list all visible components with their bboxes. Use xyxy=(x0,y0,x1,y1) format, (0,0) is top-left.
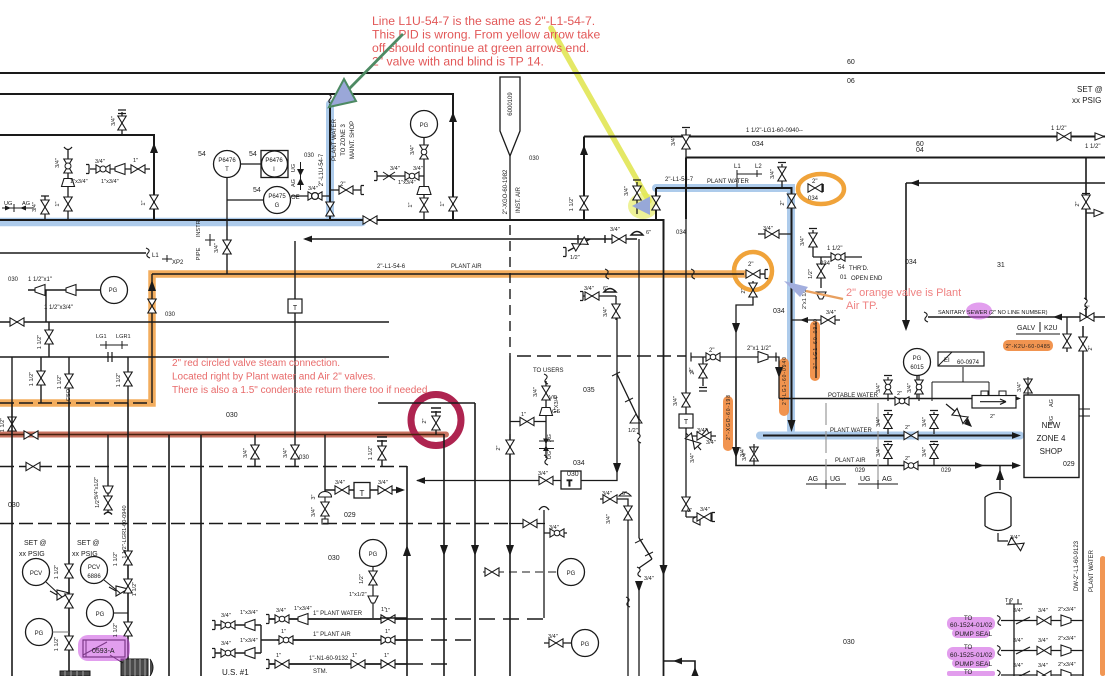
backflow preventer set xyxy=(884,376,919,402)
inclined blowoff x686 xyxy=(686,433,701,450)
LG1 LGR1 ticks xyxy=(100,341,128,349)
svg-text:030: 030 xyxy=(8,277,19,283)
highlight: plant air line (orange) xyxy=(0,274,744,403)
wire condensate header y241 with west arrow xyxy=(305,235,637,243)
dashed line under orange y403 xyxy=(0,402,152,404)
svg-text:PG: PG xyxy=(35,631,44,637)
svg-text:034: 034 xyxy=(752,141,764,148)
svg-text:6886: 6886 xyxy=(87,574,101,580)
svg-text:030: 030 xyxy=(165,312,176,318)
purple: sewer word xyxy=(966,303,992,320)
svg-text:UG: UG xyxy=(860,476,871,483)
svg-text:PUMP SEAL: PUMP SEAL xyxy=(955,661,992,668)
svg-text:UG: UG xyxy=(4,201,12,207)
svg-text:T ?: T ? xyxy=(1005,598,1013,604)
valve 1" on x154 drop xyxy=(150,195,158,209)
left edge row valves 1" xyxy=(380,617,407,619)
instrument PCV 6886 xyxy=(81,557,108,584)
svg-text:2": 2" xyxy=(780,200,786,205)
trap set y490 xyxy=(325,489,398,491)
svg-text:60-1524-01/02: 60-1524-01/02 xyxy=(950,622,993,629)
svg-text:3/4": 3/4" xyxy=(770,169,776,179)
svg-text:04: 04 xyxy=(916,147,924,154)
svg-text:POTABLE WATER: POTABLE WATER xyxy=(828,393,879,399)
svg-text:K2U: K2U xyxy=(1044,325,1058,332)
svg-text:029: 029 xyxy=(941,468,952,474)
instrument P6476 I (shared display) xyxy=(261,151,288,178)
svg-text:PLANT AIR: PLANT AIR xyxy=(451,264,482,270)
svg-text:54: 54 xyxy=(249,151,257,158)
inst air inlet funnel 6000109 xyxy=(500,77,520,156)
svg-text:1/2": 1/2" xyxy=(628,428,638,434)
svg-text:60-1525-01/02: 60-1525-01/02 xyxy=(950,652,993,659)
riser x128 long xyxy=(127,403,129,676)
sanitary sewer line xyxy=(928,316,1105,318)
svg-text:AG: AG xyxy=(291,179,297,187)
svg-text:There is also a 1.5" condensat: There is also a 1.5" condensate return t… xyxy=(172,385,427,396)
svg-text:1 1/2": 1 1/2" xyxy=(113,552,119,566)
svg-text:2": 2" xyxy=(812,179,817,185)
svg-text:3/4": 3/4" xyxy=(1038,608,1048,614)
pump B motor hatched xyxy=(121,659,153,676)
svg-text:3/4": 3/4" xyxy=(1038,663,1048,669)
valve 1 1/2" x584 xyxy=(580,196,588,210)
reducer pair on y291 stub xyxy=(28,290,100,322)
svg-text:3/4": 3/4" xyxy=(700,507,710,513)
highlight: 2"-L1U-54-7 branch (blue) xyxy=(326,104,334,218)
svg-text:2"-L1U-54-7: 2"-L1U-54-7 xyxy=(319,153,325,186)
wire top line 1 xyxy=(0,72,1105,74)
svg-text:2": 2" xyxy=(496,445,502,450)
svg-text:2": 2" xyxy=(741,288,747,293)
svg-text:SET @: SET @ xyxy=(1077,85,1103,94)
svg-text:3/4": 3/4" xyxy=(413,166,423,172)
drain branch x616 xyxy=(583,296,639,420)
svg-text:PCV: PCV xyxy=(30,571,42,577)
svg-text:3/4": 3/4" xyxy=(697,428,707,434)
svg-text:PLANT WATER: PLANT WATER xyxy=(707,179,750,185)
flange on y357 xyxy=(108,352,112,362)
svg-text:PG: PG xyxy=(109,288,118,294)
svg-text:2": 2" xyxy=(1075,201,1081,206)
ug/ag tick x546 xyxy=(539,441,554,449)
svg-text:PLANT WATER: PLANT WATER xyxy=(1089,549,1095,592)
flow arrow up x407 xyxy=(403,545,411,556)
sewer drop valve x1067 xyxy=(1066,317,1068,352)
row tie-in valves 1" xyxy=(379,617,381,619)
valve on main x370 xyxy=(363,216,377,224)
svg-text:3/4": 3/4" xyxy=(335,480,345,486)
valve 2" on zone4 drop xyxy=(787,194,795,208)
svg-text:3/4": 3/4" xyxy=(671,136,677,146)
node flow arrow up x453 xyxy=(449,112,457,122)
svg-text:AG: AG xyxy=(22,201,30,207)
svg-text:SET @: SET @ xyxy=(24,540,47,547)
hose stub y227 xyxy=(758,233,791,235)
pump A motor xyxy=(60,671,90,676)
valve 1" on x453 drop xyxy=(449,197,457,211)
highlight: yellow annotation stroke xyxy=(551,28,649,201)
instrument P6475 G xyxy=(264,187,291,214)
svg-text:3/4": 3/4" xyxy=(538,471,548,477)
wire L1U-54-7 branch vertical xyxy=(329,104,331,219)
svg-text:6": 6" xyxy=(622,491,627,497)
svg-text:6": 6" xyxy=(687,508,692,514)
svg-text:030: 030 xyxy=(226,412,238,419)
svg-text:1": 1" xyxy=(440,201,446,206)
riser x1086 k2u xyxy=(1085,158,1087,318)
svg-text:3/4": 3/4" xyxy=(742,451,748,461)
svg-text:3/4": 3/4" xyxy=(603,307,609,317)
valve+cap TP stub x637 xyxy=(633,180,641,214)
potable water line xyxy=(779,398,1019,400)
return header corner x906 xyxy=(906,183,1105,326)
valve 3/4" stub x45 xyxy=(41,196,49,219)
svg-text:Air TP.: Air TP. xyxy=(846,300,878,312)
svg-text:TO USERS: TO USERS xyxy=(533,368,564,374)
svg-text:1"x3/4": 1"x3/4" xyxy=(70,179,88,185)
svg-text:31: 31 xyxy=(997,262,1005,269)
wire top line 2 to corner xyxy=(0,94,453,219)
svg-text:1 1/2": 1 1/2" xyxy=(1085,144,1100,150)
root valve drop x227 to plant air xyxy=(226,220,228,274)
svg-text:xx PSIG: xx PSIG xyxy=(19,551,45,558)
seal row 3 partial xyxy=(1001,674,1083,676)
riser x407 xyxy=(406,466,408,676)
orange circle around plant water valve xyxy=(798,174,844,204)
instrument PG x585 w/ valve xyxy=(572,630,599,657)
valve 1 1/2" x69 lower xyxy=(65,636,73,650)
svg-text:54: 54 xyxy=(253,187,261,194)
highlight: plant water to new zone 4 shop (blue) xyxy=(656,188,1020,436)
svg-text:PG: PG xyxy=(913,356,922,362)
svg-text:3/4": 3/4" xyxy=(378,480,388,486)
US1 side taps rowA y625 rowB y653 xyxy=(215,625,277,653)
svg-text:0593-A: 0593-A xyxy=(92,648,115,655)
svg-text:1 1/2": 1 1/2" xyxy=(54,637,60,651)
orange bar label horizontal (2"-K2U) xyxy=(1003,340,1053,351)
svg-text:1/2": 1/2" xyxy=(359,574,365,584)
svg-text:3/4": 3/4" xyxy=(690,453,696,463)
wire G to root valve xyxy=(291,195,330,197)
svg-text:6": 6" xyxy=(646,230,651,236)
svg-text:030: 030 xyxy=(529,156,540,162)
svg-text:P6475: P6475 xyxy=(268,194,286,200)
svg-text:PLANT AIR: PLANT AIR xyxy=(835,458,866,464)
valve 2" drop x703 xyxy=(699,357,707,391)
svg-text:OPEN END: OPEN END xyxy=(851,276,883,282)
orange bar label 3 xyxy=(723,396,733,451)
riser x12 long xyxy=(11,403,13,676)
wire left header y135 xyxy=(0,135,154,219)
svg-text:3/4": 3/4" xyxy=(800,236,806,246)
svg-text:2"x3/4": 2"x3/4" xyxy=(1058,607,1076,613)
svg-text:Located right by Plant water a: Located right by Plant water and Air 2" … xyxy=(172,372,376,383)
svg-text:2": 2" xyxy=(1088,345,1094,350)
valve on zone4 branch root x656 xyxy=(652,196,660,210)
svg-text:2": 2" xyxy=(897,391,902,397)
dark red circle around steam valve xyxy=(411,395,461,446)
svg-text:3/4": 3/4" xyxy=(922,417,928,427)
instrument PG x571 w/ dashed lead xyxy=(558,559,585,586)
svg-text:LGR1: LGR1 xyxy=(116,334,131,340)
svg-text:3/4": 3/4" xyxy=(706,440,716,446)
lavender arrow to pink note xyxy=(806,291,843,299)
svg-text:3/4": 3/4" xyxy=(1013,608,1023,614)
svg-text:1": 1" xyxy=(384,653,389,659)
lower riser x544 w/ vac breaker xyxy=(539,507,549,619)
svg-text:1 1/2": 1 1/2" xyxy=(113,623,119,637)
svg-text:T: T xyxy=(225,167,229,173)
svg-text:1"-N1-60-9132: 1"-N1-60-9132 xyxy=(309,656,349,662)
gray boundary x826 xyxy=(825,403,827,487)
svg-text:2"-XGO-60-198: 2"-XGO-60-198 xyxy=(726,395,732,440)
svg-text:off should continue at green a: off should continue at green arrows end. xyxy=(372,41,589,55)
svg-text:3/4": 3/4" xyxy=(673,396,679,406)
instrument P6476 T xyxy=(214,151,241,178)
svg-text:3/4": 3/4" xyxy=(214,243,220,253)
flow arrow up on plant air riser xyxy=(148,280,156,291)
instrument PCV left xyxy=(23,559,50,586)
wire plant water branch to zone4 (under blue) xyxy=(656,188,1018,436)
svg-text:SANITARY SEWER (2" NO LINE NUM: SANITARY SEWER (2" NO LINE NUMBER) xyxy=(938,310,1048,316)
svg-text:3/4": 3/4" xyxy=(876,383,882,393)
breaks on plant air line xyxy=(605,269,609,279)
valve 2" steam TP (red circled) xyxy=(431,408,441,435)
svg-text:PG: PG xyxy=(369,552,378,558)
blowdown stub x792 y320 xyxy=(792,319,841,321)
svg-text:01: 01 xyxy=(840,275,847,281)
stub 2" blind east of branch xyxy=(330,189,361,191)
branch 2" y357 to zone4 riser xyxy=(691,357,779,399)
plant air line to shop xyxy=(736,357,1019,466)
svg-text:3/4": 3/4" xyxy=(826,310,836,316)
valve on plant air riser xyxy=(148,299,156,313)
svg-text:3/4": 3/4" xyxy=(624,186,630,196)
valve drop x295 lower xyxy=(294,435,296,466)
header row 2 plant air y640 xyxy=(277,639,407,641)
instrument PG 6015 xyxy=(904,349,931,376)
svg-text:3/4": 3/4" xyxy=(610,227,620,233)
svg-text:1": 1" xyxy=(352,653,357,659)
svg-text:P6476: P6476 xyxy=(265,158,283,164)
svg-text:3/4": 3/4" xyxy=(1017,382,1023,392)
svg-text:1 1/2": 1 1/2" xyxy=(57,375,63,389)
svg-text:1 1/2": 1 1/2" xyxy=(132,582,138,596)
svg-text:1/2": 1/2" xyxy=(808,269,814,279)
riser x325 w/ blowdown xyxy=(324,435,326,493)
orange highlighter bars over vertical line labels xyxy=(723,321,1053,451)
svg-text:3": 3" xyxy=(311,494,317,499)
svg-text:UG: UG xyxy=(547,451,553,459)
svg-text:2": 2" xyxy=(690,369,696,374)
svg-text:1": 1" xyxy=(381,607,386,613)
header row 3 stm y664 xyxy=(269,663,407,665)
svg-text:1 1/2"x1": 1 1/2"x1" xyxy=(28,277,52,283)
svg-text:1"x3/4": 1"x3/4" xyxy=(240,638,258,644)
svg-text:2"x3/4": 2"x3/4" xyxy=(1058,662,1076,668)
svg-text:UG: UG xyxy=(830,476,841,483)
svg-text:3/4": 3/4" xyxy=(410,145,416,155)
flow arrow down x441 xyxy=(440,545,448,556)
svg-text:1" PLANT AIR: 1" PLANT AIR xyxy=(313,632,351,638)
purple: pump seal tag 2 xyxy=(947,647,995,660)
svg-text:1 1/2"-LG1-60-0940--: 1 1/2"-LG1-60-0940-- xyxy=(746,128,803,134)
room wall vertical x475 xyxy=(474,403,476,676)
svg-text:1 1/2": 1 1/2" xyxy=(569,197,575,211)
svg-text:3/4": 3/4" xyxy=(907,383,913,393)
svg-text:xx PSIG: xx PSIG xyxy=(72,551,98,558)
node flow arrow up x154 xyxy=(150,143,158,153)
dashed header y356 right xyxy=(517,355,686,357)
receiver drain xyxy=(998,533,1008,541)
svg-text:3/4": 3/4" xyxy=(922,447,928,457)
yellow-blue arrowhead xyxy=(632,197,650,216)
svg-text:INSTR.: INSTR. xyxy=(196,218,202,237)
flow arrow right end of LG1 header xyxy=(1095,133,1104,140)
svg-text:54: 54 xyxy=(838,265,845,271)
wire XP2 header y253 xyxy=(0,252,146,254)
valve 1 1/2" x69 upper xyxy=(65,564,73,578)
svg-text:034: 034 xyxy=(808,196,819,202)
potable water riser x816 xyxy=(815,322,817,378)
svg-text:3/4": 3/4" xyxy=(549,525,559,531)
flow arrow down x510 xyxy=(506,545,514,556)
valve 1 1/2" on LG1 header x1064 xyxy=(1057,132,1071,140)
thrd open end set x813 xyxy=(809,229,817,258)
svg-text:034: 034 xyxy=(676,230,687,236)
svg-text:1 1/2": 1 1/2" xyxy=(54,565,60,579)
svg-text:OE: OE xyxy=(291,195,300,201)
k2u riser x1083 xyxy=(1082,326,1084,676)
svg-text:54: 54 xyxy=(198,151,206,158)
svg-text:029: 029 xyxy=(1063,461,1075,468)
riser x664 (main drop) xyxy=(663,238,665,676)
svg-text:3/4": 3/4" xyxy=(95,159,105,165)
svg-text:PG: PG xyxy=(96,612,105,618)
svg-text:1 1/2": 1 1/2" xyxy=(368,446,374,460)
header row 1 plant water y619 xyxy=(269,618,407,620)
svg-text:2": 2" xyxy=(748,262,753,268)
receiver feed xyxy=(999,466,1001,491)
1" bypass valve y421.5 xyxy=(510,421,546,423)
svg-text:2": 2" xyxy=(990,414,995,420)
svg-text:60-0974: 60-0974 xyxy=(957,360,980,366)
faint text inside orange bars xyxy=(726,319,1050,440)
wire header y157 xyxy=(686,158,1105,220)
jumper valve 1" x530 xyxy=(509,523,545,525)
svg-text:1 1/2": 1 1/2" xyxy=(29,372,35,386)
drain stack x68 xyxy=(64,147,72,219)
svg-text:3/4": 3/4" xyxy=(1010,535,1020,541)
svg-text:PIPE: PIPE xyxy=(196,247,202,260)
drain assembly at end y241 xyxy=(568,239,590,251)
node flow arrow up x584 xyxy=(580,145,588,155)
svg-text:030: 030 xyxy=(299,455,310,461)
svg-text:030: 030 xyxy=(304,153,315,159)
instrument PG x373 set xyxy=(360,540,387,567)
room wall horizontal y403 xyxy=(378,402,475,404)
svg-text:STM.: STM. xyxy=(313,669,328,675)
to-users branch x546 xyxy=(545,381,547,458)
instrument PG x100 xyxy=(87,600,114,627)
purple: pump seal tag 1 xyxy=(947,617,995,630)
svg-text:2": 2" xyxy=(1084,306,1089,312)
orange bar label 1 xyxy=(810,321,820,381)
svg-text:030: 030 xyxy=(8,502,20,509)
svg-text:xx PSIG: xx PSIG xyxy=(1072,96,1101,105)
svg-text:THR'D.: THR'D. xyxy=(849,266,869,272)
svg-text:3/4": 3/4" xyxy=(606,514,612,524)
svg-text:EI: EI xyxy=(944,358,950,364)
green arrow annotation xyxy=(348,34,403,90)
L1 L2 ticks on zone4 branch xyxy=(737,170,762,188)
svg-text:1"x3/4": 1"x3/4" xyxy=(294,606,312,612)
svg-text:3/4": 3/4" xyxy=(876,447,882,457)
svg-text:3/4": 3/4" xyxy=(1013,638,1023,644)
plant water shop valves xyxy=(884,411,938,435)
svg-text:T: T xyxy=(293,305,298,312)
riser x639 drains xyxy=(639,239,652,676)
riser x201 xyxy=(200,435,202,676)
galv/k2u tick xyxy=(1016,322,1060,334)
svg-text:1 1/2"-LGR1-60-0940: 1 1/2"-LGR1-60-0940 xyxy=(122,505,128,558)
svg-text:P6476: P6476 xyxy=(218,158,236,164)
riser x12 xyxy=(11,357,13,403)
svg-text:SET @: SET @ xyxy=(77,540,100,547)
dashed header y523 xyxy=(0,523,509,525)
svg-text:3/4": 3/4" xyxy=(644,576,654,582)
T-trap riser x295 xyxy=(294,241,296,435)
svg-text:2" red circled valve steam con: 2" red circled valve steam connection. xyxy=(172,358,340,369)
valve 1 1/2" x128 upper xyxy=(124,551,132,565)
svg-text:NEW: NEW xyxy=(1042,421,1061,430)
valve 3/4" cap stub x782 xyxy=(778,163,786,189)
instrument PG x39 xyxy=(26,619,53,646)
instr boundary dashed x510 xyxy=(509,225,511,356)
relief valve x69 xyxy=(50,590,69,600)
svg-text:AG: AG xyxy=(882,476,892,483)
svg-text:1": 1" xyxy=(55,201,61,206)
riser x510 lower xyxy=(509,434,511,676)
svg-text:T: T xyxy=(567,479,572,488)
svg-text:2": 2" xyxy=(340,182,345,188)
svg-text:GALV: GALV xyxy=(1017,325,1035,332)
svg-text:034: 034 xyxy=(820,261,831,267)
svg-text:2": 2" xyxy=(905,456,910,462)
svg-text:2": 2" xyxy=(905,425,910,431)
svg-text:TO: TO xyxy=(964,670,973,676)
svg-text:SHOP: SHOP xyxy=(1040,447,1063,456)
svg-text:AG: AG xyxy=(547,434,553,442)
svg-text:2"x1 1/2": 2"x1 1/2" xyxy=(747,346,771,352)
svg-text:LG1: LG1 xyxy=(96,334,107,340)
svg-text:3/4": 3/4" xyxy=(548,634,558,640)
flow arrow down end of zone4 drop xyxy=(788,420,796,432)
wire PG stack xyxy=(423,138,425,220)
svg-text:1": 1" xyxy=(276,653,281,659)
svg-text:INST. AIR: INST. AIR xyxy=(516,186,522,213)
svg-text:T: T xyxy=(360,489,365,498)
svg-text:3/4": 3/4" xyxy=(876,417,882,427)
condensate return line y481 xyxy=(417,480,561,482)
riser x41 xyxy=(40,357,42,403)
svg-text:1 1/2": 1 1/2" xyxy=(37,335,43,349)
wire header y357 xyxy=(0,356,389,358)
svg-text:UG: UG xyxy=(291,164,297,172)
tp row y176 xyxy=(377,175,424,177)
svg-text:AG: AG xyxy=(1049,399,1055,407)
